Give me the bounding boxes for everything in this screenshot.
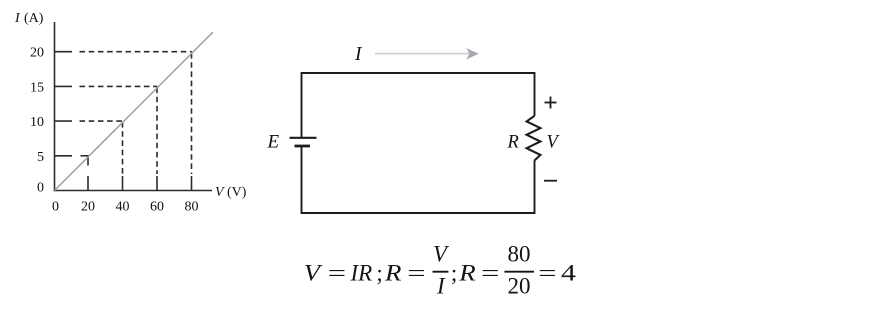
svg-text:I: I — [436, 274, 446, 299]
svg-text:40: 40 — [116, 200, 130, 215]
svg-text:20: 20 — [508, 274, 531, 299]
svg-text:=: = — [538, 261, 556, 286]
svg-text:80: 80 — [508, 241, 531, 266]
svg-text:E: E — [267, 132, 280, 153]
svg-text:(V): (V) — [227, 185, 247, 200]
svg-text:V: V — [304, 261, 323, 286]
svg-text:(A): (A) — [24, 11, 44, 26]
svg-text:;: ; — [451, 261, 457, 286]
svg-text:R: R — [507, 132, 519, 152]
svg-text:=: = — [328, 261, 346, 286]
svg-text:V: V — [215, 185, 225, 200]
svg-text:80: 80 — [185, 200, 199, 215]
svg-text:R: R — [384, 261, 402, 286]
svg-text:IR: IR — [350, 261, 373, 286]
svg-text:5: 5 — [37, 150, 44, 165]
svg-text:15: 15 — [30, 80, 44, 95]
svg-text:0: 0 — [37, 181, 44, 196]
svg-text:20: 20 — [30, 46, 44, 61]
svg-text:10: 10 — [30, 115, 44, 130]
svg-text:;: ; — [376, 261, 382, 286]
svg-text:V: V — [433, 241, 450, 266]
svg-text:R: R — [458, 261, 476, 286]
svg-text:=: = — [407, 261, 425, 286]
svg-text:0: 0 — [52, 200, 59, 215]
svg-text:60: 60 — [150, 200, 164, 215]
svg-text:I: I — [354, 44, 363, 65]
svg-text:20: 20 — [81, 200, 95, 215]
svg-text:=: = — [481, 261, 499, 286]
svg-text:I: I — [14, 11, 21, 26]
svg-text:4: 4 — [561, 260, 576, 286]
svg-text:V: V — [547, 133, 561, 153]
